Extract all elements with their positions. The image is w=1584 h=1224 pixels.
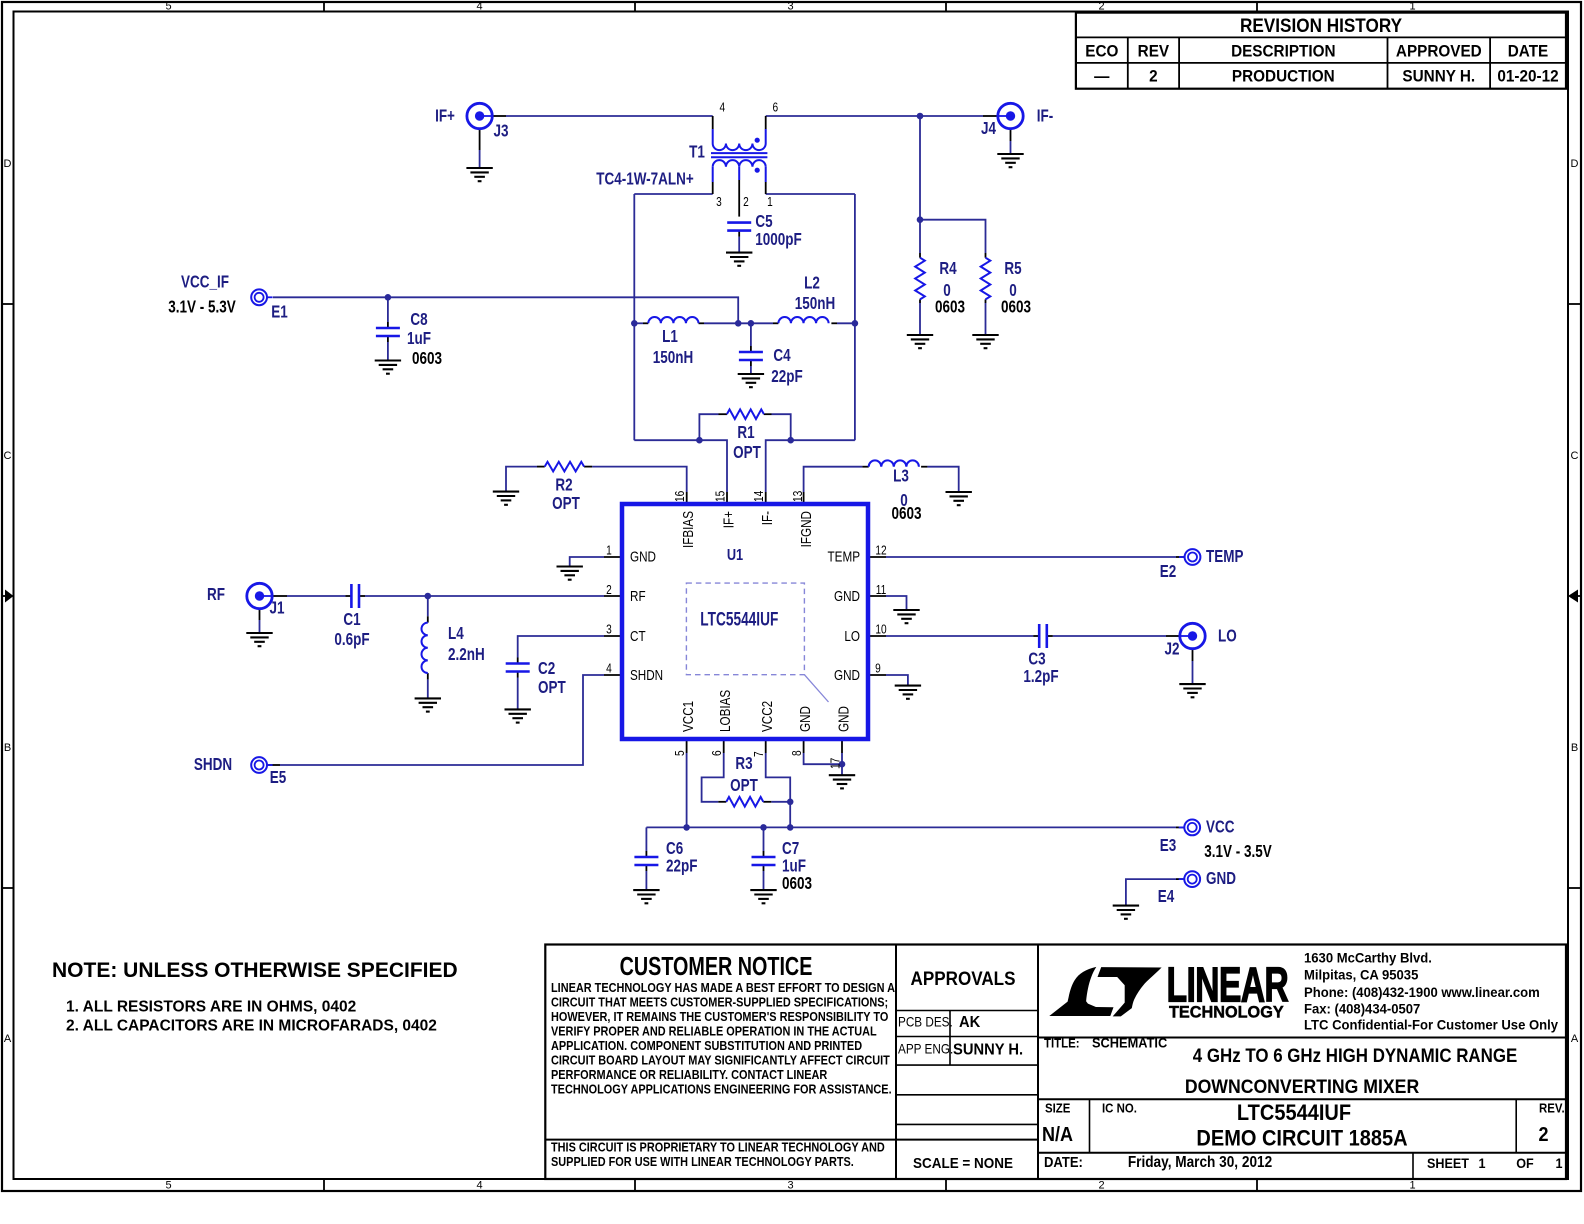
svg-text:10: 10 bbox=[875, 622, 887, 636]
svg-text:E4: E4 bbox=[1158, 887, 1175, 906]
svg-text:IF-: IF- bbox=[759, 511, 776, 525]
svg-text:2: 2 bbox=[743, 195, 749, 209]
svg-text:0.6pF: 0.6pF bbox=[334, 630, 369, 649]
svg-text:15: 15 bbox=[713, 491, 727, 502]
svg-text:PERFORMANCE OR RELIABILITY. C: PERFORMANCE OR RELIABILITY. CONTACT LINE… bbox=[551, 1067, 828, 1082]
svg-text:6: 6 bbox=[773, 100, 779, 114]
svg-text:4: 4 bbox=[476, 1, 482, 13]
svg-text:3: 3 bbox=[606, 622, 612, 636]
svg-text:SUPPLIED FOR USE WITH LINEAR T: SUPPLIED FOR USE WITH LINEAR TECHNOLOGY … bbox=[551, 1154, 854, 1169]
svg-text:DATE: DATE bbox=[1508, 42, 1549, 61]
svg-text:R5: R5 bbox=[1004, 259, 1021, 278]
svg-text:22pF: 22pF bbox=[666, 857, 698, 876]
svg-text:SHDN: SHDN bbox=[194, 755, 232, 774]
svg-text:1.2pF: 1.2pF bbox=[1023, 667, 1058, 686]
svg-text:APPROVED: APPROVED bbox=[1396, 42, 1482, 61]
svg-text:SUNNY H.: SUNNY H. bbox=[1402, 67, 1475, 86]
svg-text:4: 4 bbox=[476, 1180, 482, 1192]
svg-text:C4: C4 bbox=[773, 346, 790, 365]
svg-text:R1: R1 bbox=[737, 423, 754, 442]
svg-text:GND: GND bbox=[797, 706, 814, 732]
svg-text:7: 7 bbox=[752, 751, 766, 757]
svg-text:22pF: 22pF bbox=[771, 367, 803, 386]
svg-text:LINEAR TECHNOLOGY HAS MADE A B: LINEAR TECHNOLOGY HAS MADE A BEST EFFORT… bbox=[551, 980, 895, 995]
svg-text:4 GHz TO 6 GHz HIGH DYNAMIC RA: 4 GHz TO 6 GHz HIGH DYNAMIC RANGE bbox=[1193, 1045, 1517, 1066]
svg-text:LO: LO bbox=[1218, 627, 1237, 646]
svg-text:IF+: IF+ bbox=[720, 511, 737, 528]
svg-text:3.1V - 5.3V: 3.1V - 5.3V bbox=[168, 298, 236, 317]
svg-text:DATE:: DATE: bbox=[1044, 1154, 1083, 1170]
svg-text:C6: C6 bbox=[666, 839, 683, 858]
svg-text:L1: L1 bbox=[662, 327, 678, 346]
svg-text:1uF: 1uF bbox=[782, 857, 806, 876]
svg-text:1: 1 bbox=[767, 195, 773, 209]
svg-text:APPROVALS: APPROVALS bbox=[911, 967, 1016, 989]
svg-text:GND: GND bbox=[835, 706, 852, 732]
svg-text:IF-: IF- bbox=[1037, 107, 1053, 126]
svg-text:4: 4 bbox=[720, 100, 726, 114]
svg-text:9: 9 bbox=[875, 661, 881, 675]
svg-text:L3: L3 bbox=[893, 467, 909, 486]
svg-text:3: 3 bbox=[787, 1, 793, 13]
svg-text:CIRCUIT THAT MEETS CUSTOMER-SU: CIRCUIT THAT MEETS CUSTOMER-SUPPLIED SPE… bbox=[551, 995, 888, 1010]
svg-text:REV.: REV. bbox=[1539, 1101, 1565, 1116]
svg-text:01-20-12: 01-20-12 bbox=[1497, 67, 1558, 86]
svg-text:E1: E1 bbox=[271, 303, 288, 322]
svg-text:E5: E5 bbox=[270, 768, 287, 787]
svg-text:2: 2 bbox=[1098, 1180, 1104, 1192]
svg-text:DOWNCONVERTING MIXER: DOWNCONVERTING MIXER bbox=[1185, 1075, 1419, 1097]
svg-text:1630 McCarthy Blvd.: 1630 McCarthy Blvd. bbox=[1304, 950, 1432, 965]
svg-text:E2: E2 bbox=[1160, 562, 1177, 581]
svg-text:N/A: N/A bbox=[1042, 1124, 1073, 1146]
svg-text:LTC Confidential-For Customer: LTC Confidential-For Customer Use Only bbox=[1304, 1017, 1559, 1032]
svg-text:SIZE: SIZE bbox=[1045, 1101, 1070, 1116]
svg-text:5: 5 bbox=[673, 750, 687, 756]
svg-text:PCB DES.: PCB DES. bbox=[898, 1015, 953, 1030]
svg-text:3: 3 bbox=[716, 195, 722, 209]
svg-text:TC4-1W-7ALN+: TC4-1W-7ALN+ bbox=[596, 170, 694, 189]
svg-text:SUNNY H.: SUNNY H. bbox=[953, 1041, 1023, 1058]
svg-text:C1: C1 bbox=[343, 610, 360, 629]
svg-text:8: 8 bbox=[790, 750, 804, 756]
svg-text:GND: GND bbox=[834, 667, 860, 684]
svg-text:1. ALL RESISTORS ARE IN OHMS,: 1. ALL RESISTORS ARE IN OHMS, 0402 bbox=[66, 999, 356, 1016]
svg-text:14: 14 bbox=[752, 490, 766, 502]
svg-text:VCC: VCC bbox=[1206, 818, 1235, 837]
svg-text:3.1V - 3.5V: 3.1V - 3.5V bbox=[1204, 842, 1272, 861]
svg-text:ECO: ECO bbox=[1085, 42, 1118, 61]
svg-text:RF: RF bbox=[630, 588, 646, 605]
svg-text:OPT: OPT bbox=[538, 678, 566, 697]
svg-text:C: C bbox=[4, 450, 12, 462]
svg-text:5: 5 bbox=[165, 1, 171, 13]
svg-text:OPT: OPT bbox=[733, 443, 761, 462]
svg-text:C7: C7 bbox=[782, 839, 799, 858]
svg-text:VCC_IF: VCC_IF bbox=[181, 273, 229, 292]
svg-text:T1: T1 bbox=[689, 143, 705, 162]
svg-text:SCALE = NONE: SCALE = NONE bbox=[913, 1155, 1013, 1172]
svg-text:Phone: (408)432-1900 www.line: Phone: (408)432-1900 www.linear.com bbox=[1304, 985, 1540, 1000]
svg-text:0603: 0603 bbox=[412, 349, 442, 368]
svg-text:1uF: 1uF bbox=[407, 329, 431, 348]
svg-text:B: B bbox=[1571, 742, 1578, 754]
svg-text:1: 1 bbox=[1555, 1155, 1563, 1171]
svg-text:R4: R4 bbox=[939, 259, 956, 278]
svg-text:CT: CT bbox=[630, 628, 646, 645]
svg-text:VCC2: VCC2 bbox=[759, 701, 776, 732]
svg-text:1000pF: 1000pF bbox=[755, 230, 802, 249]
svg-text:C8: C8 bbox=[410, 310, 427, 329]
svg-text:J3: J3 bbox=[493, 122, 508, 141]
svg-text:2: 2 bbox=[1098, 1, 1104, 13]
svg-text:0603: 0603 bbox=[891, 504, 921, 523]
svg-text:C5: C5 bbox=[755, 212, 772, 231]
svg-text:APPLICATION. COMPONENT SUBSTI: APPLICATION. COMPONENT SUBSTITUTION AND … bbox=[551, 1038, 862, 1053]
svg-text:NOTE: UNLESS OTHERWISE SPECIFI: NOTE: UNLESS OTHERWISE SPECIFIED bbox=[52, 959, 458, 982]
svg-text:2: 2 bbox=[1538, 1124, 1548, 1146]
svg-text:DESCRIPTION: DESCRIPTION bbox=[1231, 42, 1335, 61]
svg-text:1: 1 bbox=[606, 543, 612, 557]
svg-text:AK: AK bbox=[959, 1013, 980, 1030]
svg-text:LTC5544IUF: LTC5544IUF bbox=[1237, 1101, 1351, 1125]
svg-text:Friday, March 30, 2012: Friday, March 30, 2012 bbox=[1128, 1154, 1272, 1171]
svg-text:SHDN: SHDN bbox=[630, 667, 663, 684]
svg-text:REVISION HISTORY: REVISION HISTORY bbox=[1240, 14, 1402, 36]
svg-text:3: 3 bbox=[787, 1180, 793, 1192]
svg-text:2. ALL CAPACITORS ARE IN MICR: 2. ALL CAPACITORS ARE IN MICROFARADS, 04… bbox=[66, 1018, 437, 1035]
svg-text:J4: J4 bbox=[981, 119, 996, 138]
svg-text:OPT: OPT bbox=[552, 494, 580, 513]
svg-text:0603: 0603 bbox=[782, 874, 812, 893]
svg-text:TEMP: TEMP bbox=[828, 548, 860, 565]
svg-text:C3: C3 bbox=[1028, 650, 1045, 669]
svg-text:GND: GND bbox=[1206, 869, 1236, 888]
svg-text:TITLE:: TITLE: bbox=[1044, 1036, 1080, 1051]
svg-text:OF: OF bbox=[1516, 1155, 1533, 1171]
svg-text:HOWEVER, IT REMAINS THE CUSTOM: HOWEVER, IT REMAINS THE CUSTOMER'S RESPO… bbox=[551, 1009, 888, 1024]
svg-text:Milpitas, CA 95035: Milpitas, CA 95035 bbox=[1304, 967, 1419, 982]
svg-text:D: D bbox=[1571, 158, 1579, 170]
svg-text:R3: R3 bbox=[735, 754, 752, 773]
svg-text:Fax: (408)434-0507: Fax: (408)434-0507 bbox=[1304, 1002, 1420, 1017]
svg-text:IF+: IF+ bbox=[435, 107, 455, 126]
svg-text:LO: LO bbox=[844, 628, 860, 645]
svg-text:2: 2 bbox=[1149, 67, 1158, 86]
svg-text:VERIFY PROPER AND RELIABLE OPE: VERIFY PROPER AND RELIABLE OPERATION IN … bbox=[551, 1024, 877, 1039]
svg-text:D: D bbox=[4, 158, 12, 170]
svg-text:1: 1 bbox=[1409, 1180, 1415, 1192]
svg-text:CUSTOMER NOTICE: CUSTOMER NOTICE bbox=[620, 951, 813, 980]
svg-text:RF: RF bbox=[207, 585, 225, 604]
svg-text:J1: J1 bbox=[269, 599, 284, 618]
svg-text:1: 1 bbox=[1478, 1155, 1486, 1171]
svg-text:L4: L4 bbox=[448, 624, 464, 643]
svg-text:17: 17 bbox=[828, 758, 842, 769]
svg-text:LTC5544IUF: LTC5544IUF bbox=[700, 608, 778, 630]
svg-text:SCHEMATIC: SCHEMATIC bbox=[1092, 1035, 1168, 1050]
svg-text:DEMO CIRCUIT 1885A: DEMO CIRCUIT 1885A bbox=[1196, 1127, 1407, 1151]
svg-text:REV: REV bbox=[1138, 42, 1170, 61]
svg-text:0603: 0603 bbox=[935, 298, 965, 317]
svg-text:1: 1 bbox=[1409, 1, 1415, 13]
svg-text:A: A bbox=[4, 1033, 12, 1045]
svg-text:150nH: 150nH bbox=[795, 294, 835, 313]
svg-text:C2: C2 bbox=[538, 659, 555, 678]
svg-text:2.2nH: 2.2nH bbox=[448, 645, 485, 664]
svg-text:GND: GND bbox=[834, 588, 860, 605]
svg-text:0603: 0603 bbox=[1001, 298, 1031, 317]
svg-text:4: 4 bbox=[606, 661, 612, 675]
svg-text:THIS CIRCUIT IS PROPRIETARY TO: THIS CIRCUIT IS PROPRIETARY TO LINEAR TE… bbox=[551, 1140, 885, 1155]
svg-text:IFBIAS: IFBIAS bbox=[680, 511, 697, 548]
svg-text:11: 11 bbox=[876, 583, 887, 597]
svg-text:16: 16 bbox=[673, 491, 687, 502]
svg-text:SHEET: SHEET bbox=[1427, 1155, 1469, 1171]
svg-text:TECHNOLOGY APPLICATIONS ENGINE: TECHNOLOGY APPLICATIONS ENGINEERING FOR … bbox=[551, 1082, 892, 1097]
svg-text:CIRCUIT BOARD LAYOUT MAY SIGNI: CIRCUIT BOARD LAYOUT MAY SIGNIFICANTLY A… bbox=[551, 1053, 890, 1068]
svg-text:GND: GND bbox=[630, 548, 656, 565]
svg-text:12: 12 bbox=[875, 543, 886, 557]
svg-text:LOBIAS: LOBIAS bbox=[717, 690, 734, 732]
svg-text:R2: R2 bbox=[555, 476, 572, 495]
svg-text:2: 2 bbox=[606, 583, 612, 597]
svg-text:5: 5 bbox=[165, 1180, 171, 1192]
svg-text:IFGND: IFGND bbox=[798, 511, 815, 548]
svg-text:A: A bbox=[1571, 1033, 1579, 1045]
svg-text:PRODUCTION: PRODUCTION bbox=[1232, 67, 1335, 86]
svg-text:U1: U1 bbox=[727, 547, 743, 565]
svg-text:C: C bbox=[1571, 450, 1579, 462]
svg-text:—: — bbox=[1094, 67, 1110, 86]
svg-text:TEMP: TEMP bbox=[1206, 547, 1244, 566]
svg-text:E3: E3 bbox=[1160, 836, 1177, 855]
svg-text:APP ENG.: APP ENG. bbox=[898, 1042, 953, 1057]
svg-text:IC NO.: IC NO. bbox=[1102, 1101, 1137, 1116]
svg-text:B: B bbox=[4, 742, 11, 754]
svg-text:6: 6 bbox=[710, 750, 724, 756]
svg-text:OPT: OPT bbox=[730, 776, 758, 795]
svg-text:TECHNOLOGY: TECHNOLOGY bbox=[1169, 1003, 1284, 1021]
svg-text:13: 13 bbox=[791, 491, 805, 502]
svg-text:VCC1: VCC1 bbox=[680, 701, 697, 732]
svg-text:J2: J2 bbox=[1164, 640, 1179, 659]
svg-text:150nH: 150nH bbox=[653, 348, 693, 367]
svg-text:L2: L2 bbox=[804, 274, 820, 293]
